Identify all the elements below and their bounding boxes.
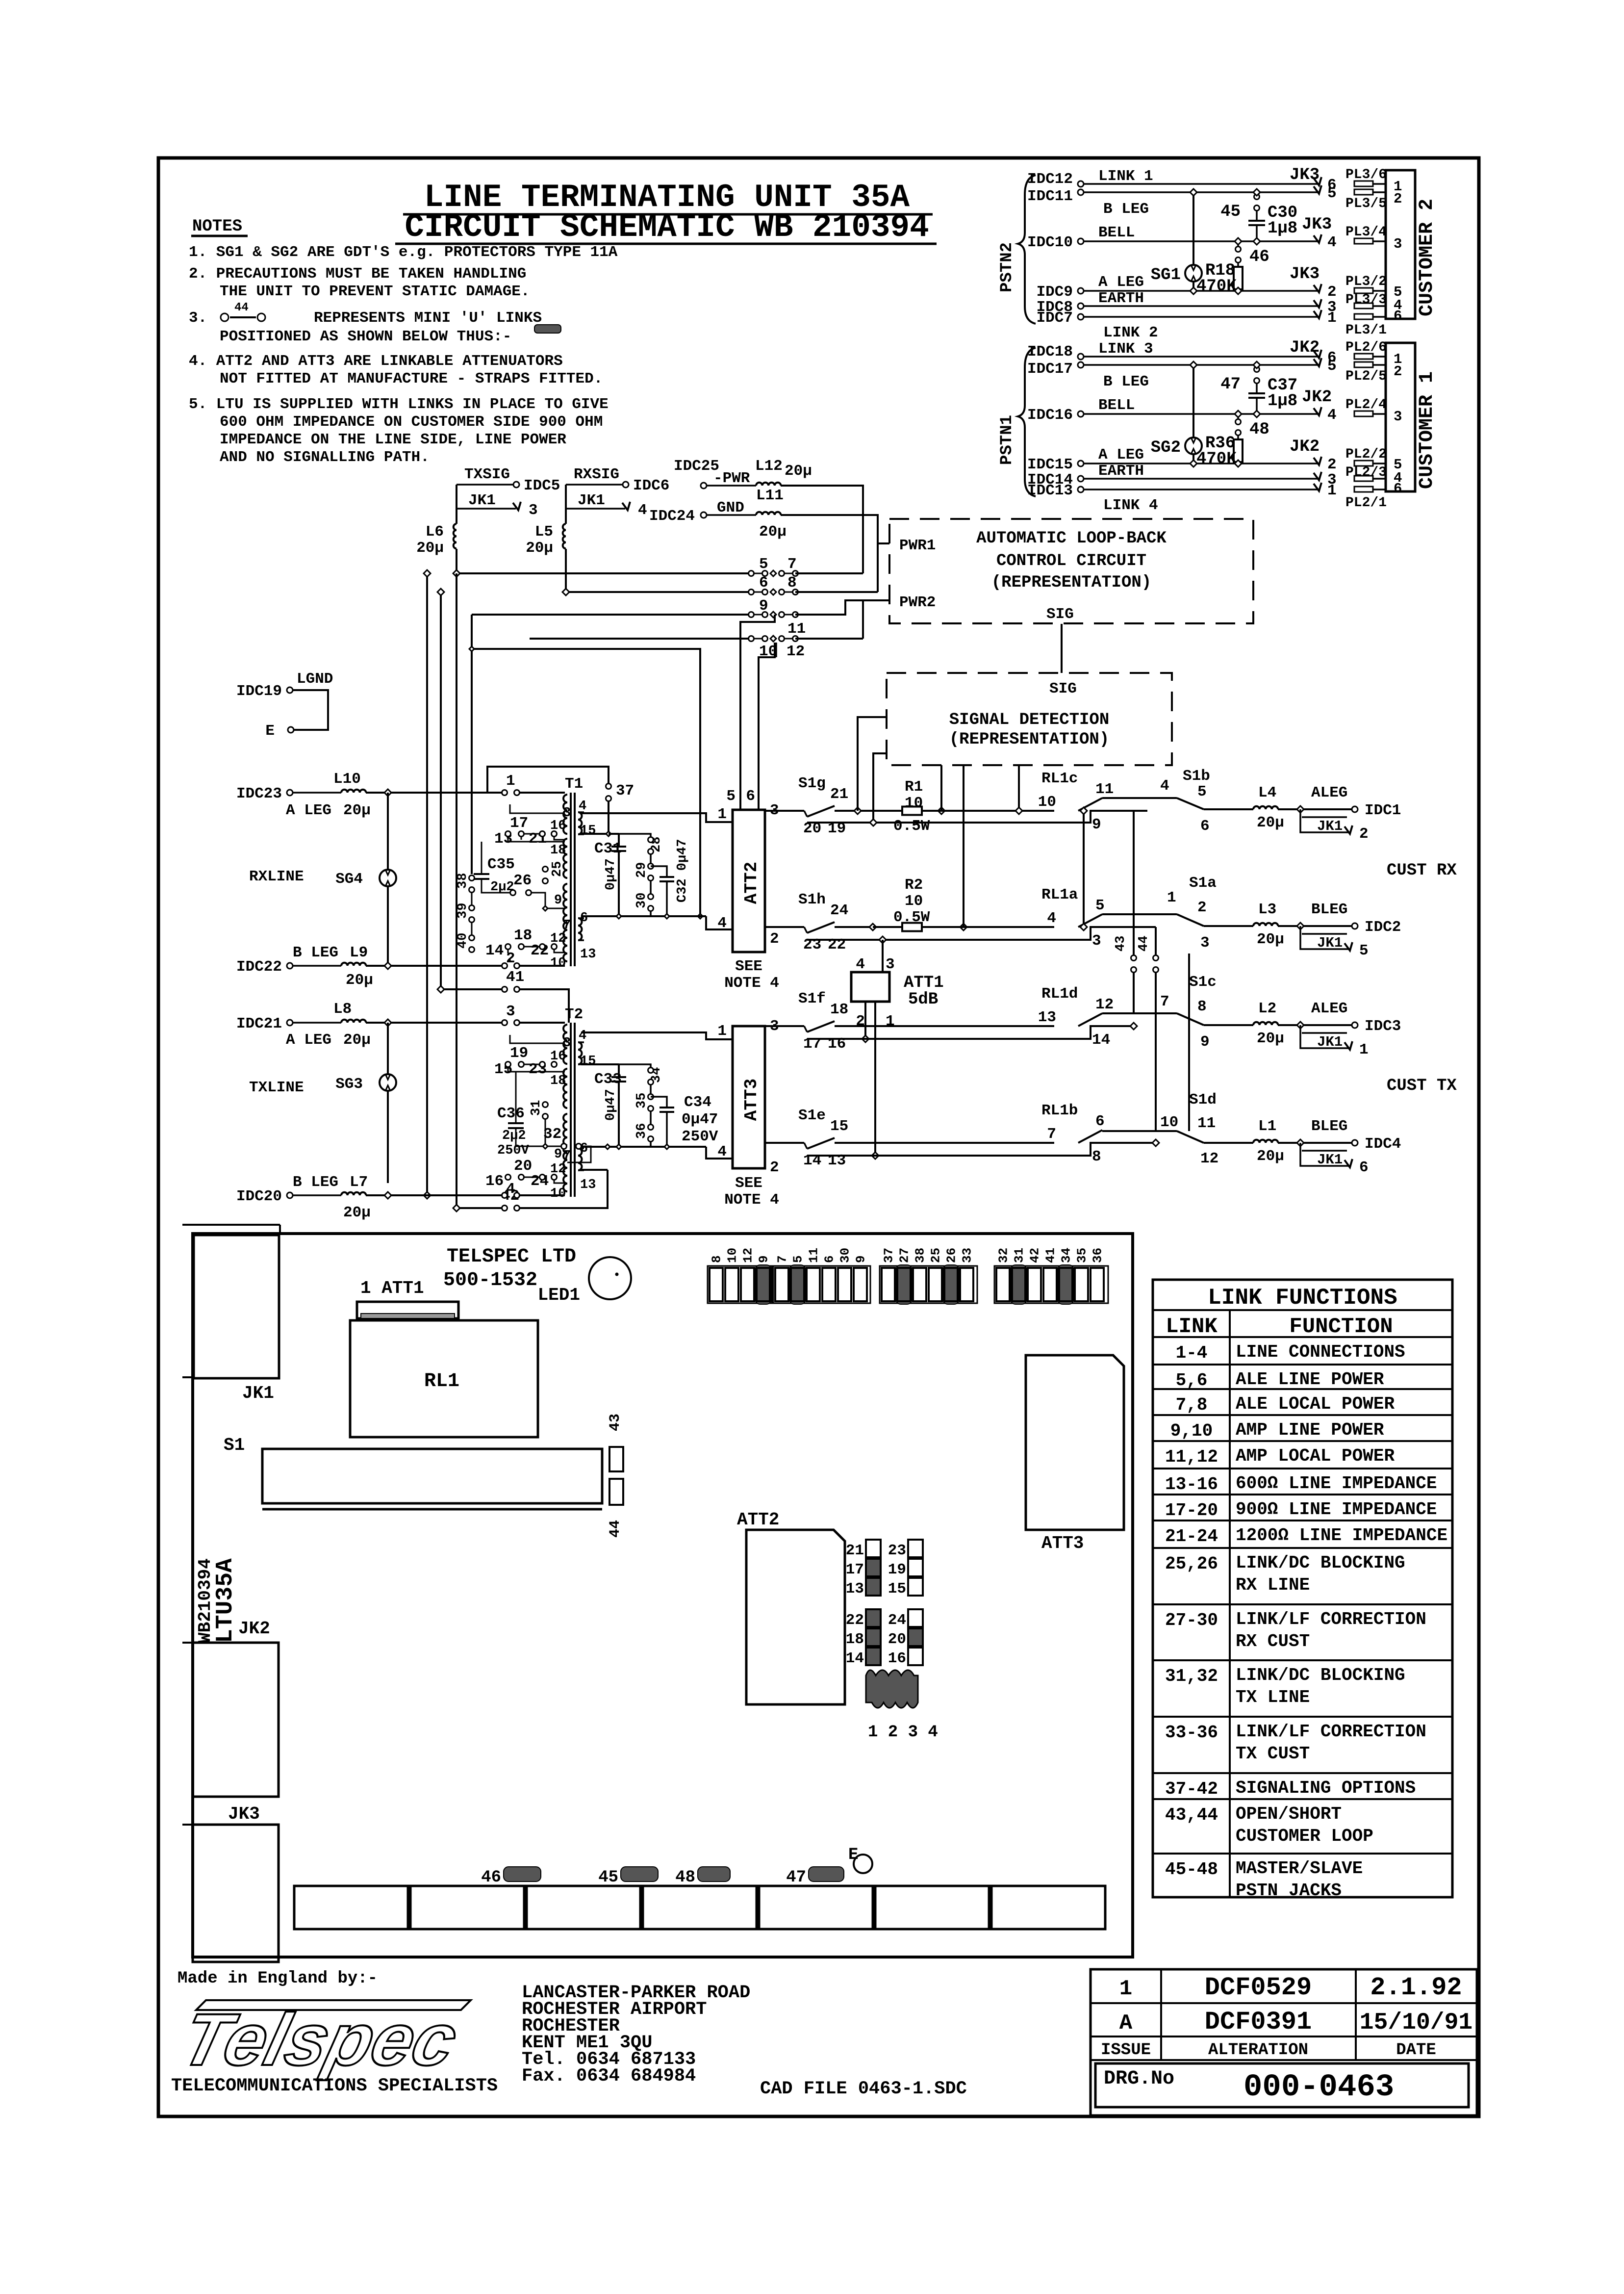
svg-text:2: 2 bbox=[1394, 363, 1402, 380]
svg-text:11,12: 11,12 bbox=[1165, 1447, 1218, 1467]
svg-text:20μ: 20μ bbox=[1257, 931, 1284, 948]
svg-text:PL3/6: PL3/6 bbox=[1345, 167, 1387, 182]
svg-text:10: 10 bbox=[1038, 794, 1056, 811]
connector box CUSTOMER 1 bbox=[1386, 343, 1415, 491]
svg-text:L9: L9 bbox=[350, 944, 368, 961]
svg-text:SG3: SG3 bbox=[335, 1076, 363, 1093]
svg-text:2μ2: 2μ2 bbox=[502, 1129, 526, 1143]
pad bbox=[1354, 288, 1373, 293]
svg-text:PWR1: PWR1 bbox=[899, 537, 936, 554]
svg-text:S1g: S1g bbox=[798, 775, 826, 792]
wire B LEG to A LEG bbox=[1193, 192, 1194, 291]
svg-text:4: 4 bbox=[1160, 777, 1169, 795]
svg-text:21-24: 21-24 bbox=[1165, 1526, 1218, 1547]
svg-text:10: 10 bbox=[905, 893, 923, 910]
svg-text:43: 43 bbox=[1114, 936, 1128, 952]
svg-text:REPRESENTS MINI 'U' LINKS: REPRESENTS MINI 'U' LINKS bbox=[314, 309, 542, 327]
link 48 bbox=[1237, 414, 1239, 419]
svg-text:1: 1 bbox=[717, 1023, 727, 1040]
svg-text:S1c: S1c bbox=[1189, 974, 1217, 991]
svg-text:2: 2 bbox=[1359, 825, 1369, 843]
svg-text:L3: L3 bbox=[1258, 901, 1276, 918]
svg-text:15: 15 bbox=[580, 1054, 596, 1069]
svg-text:CONTROL CIRCUIT: CONTROL CIRCUIT bbox=[996, 552, 1146, 570]
svg-text:18: 18 bbox=[846, 1631, 864, 1648]
svg-text:7,8: 7,8 bbox=[1176, 1395, 1208, 1415]
svg-text:5,6: 5,6 bbox=[1176, 1370, 1208, 1391]
svg-text:PL2/6: PL2/6 bbox=[1345, 340, 1387, 355]
svg-text:IDC16: IDC16 bbox=[1027, 407, 1073, 424]
svg-text:2: 2 bbox=[1327, 284, 1337, 301]
svg-text:C33: C33 bbox=[594, 1071, 622, 1088]
svg-text:30: 30 bbox=[838, 1248, 853, 1263]
inductor L2 20u bbox=[1253, 1022, 1278, 1025]
svg-text:2: 2 bbox=[770, 930, 779, 948]
svg-text:000-0463: 000-0463 bbox=[1243, 2070, 1394, 2105]
svg-text:3: 3 bbox=[1092, 932, 1101, 950]
svg-text:17-20: 17-20 bbox=[1165, 1500, 1218, 1521]
wire bbox=[1084, 240, 1319, 242]
svg-text:CUSTOMER 1: CUSTOMER 1 bbox=[1416, 371, 1438, 489]
svg-text:AUTOMATIC LOOP-BACK: AUTOMATIC LOOP-BACK bbox=[976, 529, 1167, 548]
svg-text:RX CUST: RX CUST bbox=[1236, 1631, 1310, 1651]
svg-text:38: 38 bbox=[456, 873, 470, 889]
svg-text:33-36: 33-36 bbox=[1165, 1723, 1218, 1743]
svg-text:3: 3 bbox=[529, 502, 538, 519]
svg-text:CAD FILE 0463-1.SDC: CAD FILE 0463-1.SDC bbox=[760, 2079, 967, 2099]
wire bbox=[1084, 183, 1319, 185]
svg-text:1: 1 bbox=[886, 1013, 895, 1030]
svg-text:16: 16 bbox=[550, 819, 566, 833]
svg-text:B LEG: B LEG bbox=[293, 944, 338, 961]
svg-text:46: 46 bbox=[481, 1868, 501, 1887]
svg-text:45: 45 bbox=[1220, 203, 1241, 221]
svg-text:16: 16 bbox=[485, 1173, 504, 1190]
svg-text:RL1d: RL1d bbox=[1041, 985, 1078, 1003]
svg-text:SG1: SG1 bbox=[1151, 266, 1181, 284]
svg-text:43,44: 43,44 bbox=[1165, 1805, 1218, 1825]
pad bbox=[1354, 354, 1373, 359]
svg-text:A LEG: A LEG bbox=[286, 802, 331, 819]
GDT SG3 bbox=[387, 1023, 389, 1074]
wire bbox=[1084, 305, 1319, 307]
svg-text:C36: C36 bbox=[497, 1105, 525, 1122]
svg-text:T1: T1 bbox=[565, 775, 583, 793]
svg-text:CUSTOMER LOOP: CUSTOMER LOOP bbox=[1236, 1826, 1373, 1846]
JK1 pin stub bbox=[1300, 1143, 1348, 1166]
svg-text:L1: L1 bbox=[1258, 1118, 1276, 1135]
svg-text:JK3: JK3 bbox=[228, 1804, 260, 1824]
svg-text:IDC21: IDC21 bbox=[236, 1015, 282, 1032]
wire bbox=[1084, 489, 1319, 490]
inductor L8 20u bbox=[341, 1020, 366, 1023]
svg-text:BELL: BELL bbox=[1098, 397, 1135, 414]
svg-text:27-30: 27-30 bbox=[1165, 1610, 1218, 1630]
inductor L5 20u bbox=[563, 524, 566, 548]
svg-text:POSITIONED AS SHOWN BELOW THUS: POSITIONED AS SHOWN BELOW THUS:- bbox=[220, 328, 511, 345]
svg-text:11: 11 bbox=[787, 620, 806, 638]
svg-text:SIG: SIG bbox=[1049, 680, 1077, 697]
GDT SG1 bbox=[1185, 265, 1202, 282]
svg-text:7: 7 bbox=[775, 1255, 790, 1263]
svg-text:CIRCUIT SCHEMATIC WB 210394: CIRCUIT SCHEMATIC WB 210394 bbox=[405, 209, 929, 246]
svg-text:3.: 3. bbox=[189, 309, 207, 327]
GDT SG2 bbox=[1185, 438, 1202, 454]
T2 pin6 rail to ATT3 pin4 bbox=[581, 1146, 706, 1148]
svg-text:32: 32 bbox=[996, 1248, 1011, 1263]
svg-text:7: 7 bbox=[563, 918, 571, 933]
svg-text:470K: 470K bbox=[1196, 450, 1237, 468]
svg-text:11: 11 bbox=[1095, 781, 1114, 798]
pad bbox=[1354, 314, 1373, 319]
svg-text:9: 9 bbox=[1092, 816, 1101, 833]
T2 right winding upper bbox=[578, 1042, 582, 1064]
svg-text:S1: S1 bbox=[224, 1435, 245, 1455]
svg-text:37-42: 37-42 bbox=[1165, 1779, 1218, 1799]
IDC terminal IDC1 bbox=[1352, 806, 1358, 812]
wire loop above T1 bbox=[487, 767, 609, 793]
svg-text:48: 48 bbox=[1249, 420, 1269, 439]
svg-text:8: 8 bbox=[710, 1255, 724, 1263]
svg-text:PL3/1: PL3/1 bbox=[1345, 323, 1387, 338]
svg-text:AMP LINE POWER: AMP LINE POWER bbox=[1236, 1420, 1384, 1440]
svg-text:9,10: 9,10 bbox=[1170, 1421, 1213, 1441]
T1 pin6 rail to ATT2 pin4 bbox=[581, 915, 706, 917]
svg-text:BLEG: BLEG bbox=[1311, 901, 1347, 918]
svg-text:S1d: S1d bbox=[1189, 1091, 1217, 1108]
svg-text:4: 4 bbox=[717, 1143, 727, 1160]
svg-text:5: 5 bbox=[1327, 358, 1337, 375]
svg-text:1. SG1 & SG2 ARE GDT'S e.g. P: 1. SG1 & SG2 ARE GDT'S e.g. PROTECTORS T… bbox=[189, 244, 618, 261]
svg-text:NOTE 4: NOTE 4 bbox=[724, 1191, 779, 1209]
svg-text:1: 1 bbox=[1327, 482, 1337, 499]
wire left rail A bbox=[426, 573, 428, 1195]
svg-text:5: 5 bbox=[1197, 783, 1207, 800]
svg-text:Fax. 0634 684984: Fax. 0634 684984 bbox=[522, 2066, 696, 2087]
T2 right winding lower bbox=[578, 1148, 582, 1170]
svg-text:LTU35A: LTU35A bbox=[212, 1558, 239, 1643]
link 45 bbox=[1254, 194, 1260, 200]
svg-text:46: 46 bbox=[1249, 248, 1269, 266]
wire bbox=[1084, 290, 1319, 292]
svg-text:PWR2: PWR2 bbox=[899, 594, 936, 611]
svg-text:37: 37 bbox=[882, 1248, 896, 1263]
svg-text:5: 5 bbox=[791, 1255, 806, 1263]
svg-text:500-1532: 500-1532 bbox=[443, 1269, 537, 1291]
svg-text:RL1c: RL1c bbox=[1041, 770, 1078, 787]
svg-text:600Ω LINE IMPEDANCE: 600Ω LINE IMPEDANCE bbox=[1236, 1473, 1437, 1494]
wire ATT3 pin3 to S1f bbox=[765, 1025, 804, 1027]
svg-text:48: 48 bbox=[675, 1868, 695, 1887]
svg-text:IDC10: IDC10 bbox=[1027, 234, 1073, 251]
svg-text:IDC12: IDC12 bbox=[1027, 171, 1073, 188]
svg-text:L7: L7 bbox=[350, 1174, 368, 1191]
link pins 10-12 row bbox=[530, 638, 750, 640]
wire T2 pin4 to ATT3 pin1 bbox=[581, 1032, 733, 1039]
wire to IDC bbox=[1278, 925, 1351, 927]
svg-text:3: 3 bbox=[1200, 934, 1210, 952]
svg-text:IDC9: IDC9 bbox=[1037, 284, 1073, 301]
pad bbox=[1354, 362, 1373, 367]
T1 left winding bbox=[563, 795, 567, 834]
svg-text:1: 1 bbox=[1359, 1041, 1369, 1058]
svg-text:18: 18 bbox=[550, 1074, 566, 1088]
svg-text:15: 15 bbox=[888, 1580, 906, 1598]
svg-text:5: 5 bbox=[1327, 185, 1337, 202]
T1 pin15 rail bbox=[581, 833, 609, 835]
strap symbol bbox=[534, 325, 561, 333]
svg-text:4: 4 bbox=[1327, 234, 1337, 251]
svg-text:RXSIG: RXSIG bbox=[574, 466, 619, 483]
pad bbox=[1354, 189, 1373, 195]
svg-text:IDC13: IDC13 bbox=[1027, 482, 1073, 499]
wire L11 to links bbox=[781, 515, 878, 592]
svg-text:2: 2 bbox=[1197, 899, 1207, 916]
svg-text:L6: L6 bbox=[426, 523, 444, 541]
svg-text:20μ: 20μ bbox=[416, 540, 444, 557]
svg-text:16: 16 bbox=[888, 1650, 906, 1667]
svg-text:IDC4: IDC4 bbox=[1365, 1135, 1401, 1153]
svg-text:IDC17: IDC17 bbox=[1027, 361, 1073, 378]
svg-text:L10: L10 bbox=[333, 771, 361, 788]
svg-text:JK1: JK1 bbox=[578, 492, 605, 509]
GDT SG4 bbox=[387, 793, 389, 870]
svg-text:14: 14 bbox=[846, 1650, 864, 1667]
svg-text:6: 6 bbox=[1394, 308, 1402, 324]
svg-text:13: 13 bbox=[580, 1178, 596, 1192]
svg-text:PL2/4: PL2/4 bbox=[1345, 397, 1387, 412]
svg-text:JK3: JK3 bbox=[1290, 166, 1319, 184]
svg-text:LINK 2: LINK 2 bbox=[1103, 324, 1158, 341]
svg-text:6: 6 bbox=[1359, 1159, 1369, 1176]
svg-text:21: 21 bbox=[846, 1542, 864, 1559]
svg-text:2.1.92: 2.1.92 bbox=[1370, 1973, 1462, 2002]
svg-text:ATT3: ATT3 bbox=[741, 1079, 761, 1121]
C35 wires bbox=[481, 842, 482, 873]
svg-text:JK1: JK1 bbox=[1317, 1034, 1343, 1050]
svg-text:TELSPEC LTD: TELSPEC LTD bbox=[447, 1246, 576, 1268]
svg-text:JK3: JK3 bbox=[1290, 265, 1319, 284]
svg-text:9: 9 bbox=[554, 1147, 562, 1162]
svg-text:44: 44 bbox=[234, 301, 249, 314]
svg-text:15: 15 bbox=[830, 1118, 848, 1135]
svg-text:C32 0μ47: C32 0μ47 bbox=[675, 839, 690, 902]
pad bbox=[1354, 476, 1373, 481]
svg-text:AMP LOCAL POWER: AMP LOCAL POWER bbox=[1236, 1446, 1395, 1466]
svg-text:12: 12 bbox=[550, 931, 566, 946]
svg-text:41: 41 bbox=[1043, 1248, 1058, 1263]
svg-text:LED1: LED1 bbox=[538, 1285, 580, 1305]
connector box CUSTOMER 2 bbox=[1386, 170, 1415, 319]
svg-text:L4: L4 bbox=[1258, 784, 1276, 801]
svg-text:0μ47: 0μ47 bbox=[682, 1111, 718, 1128]
svg-text:SG2: SG2 bbox=[1151, 438, 1181, 457]
wire ATT3 pin2 to S1e bbox=[765, 1142, 804, 1144]
capacitor C30 bbox=[1248, 220, 1265, 222]
inductor L3 20u bbox=[1253, 923, 1278, 926]
svg-text:36: 36 bbox=[634, 1123, 649, 1139]
svg-text:A: A bbox=[1119, 2011, 1133, 2036]
svg-text:LINK 4: LINK 4 bbox=[1103, 497, 1158, 514]
svg-text:2: 2 bbox=[1394, 191, 1402, 207]
attenuator ATT3 box bbox=[733, 1026, 765, 1168]
wire bbox=[1084, 478, 1319, 480]
svg-text:13: 13 bbox=[1038, 1009, 1056, 1026]
svg-text:PL2/5: PL2/5 bbox=[1345, 369, 1387, 384]
wire IDC22 to T1 bbox=[366, 965, 502, 967]
svg-text:5. LTU IS SUPPLIED WITH LINKS: 5. LTU IS SUPPLIED WITH LINKS IN PLACE T… bbox=[189, 396, 609, 413]
svg-text:4: 4 bbox=[579, 1029, 586, 1043]
svg-text:20: 20 bbox=[888, 1631, 906, 1648]
wire B LEG to A LEG bbox=[1193, 365, 1194, 464]
link 47 bbox=[1254, 367, 1260, 372]
svg-text:20μ: 20μ bbox=[1257, 1030, 1284, 1047]
svg-text:B LEG: B LEG bbox=[1103, 373, 1149, 390]
svg-text:ALE LOCAL POWER: ALE LOCAL POWER bbox=[1236, 1394, 1395, 1414]
svg-text:6: 6 bbox=[822, 1255, 837, 1263]
svg-text:13: 13 bbox=[846, 1580, 864, 1598]
svg-text:ATT3: ATT3 bbox=[1041, 1533, 1084, 1553]
svg-text:IDC23: IDC23 bbox=[236, 785, 282, 802]
wire bbox=[1084, 364, 1319, 366]
svg-text:A LEG: A LEG bbox=[286, 1031, 331, 1049]
LINK FUNCTIONS table bbox=[1153, 1280, 1452, 1897]
attenuator ATT2 box bbox=[733, 810, 765, 952]
JK1 pin stub bbox=[1300, 1025, 1348, 1048]
inductor L1 20u bbox=[1253, 1140, 1278, 1143]
svg-text:WB210394: WB210394 bbox=[195, 1558, 215, 1643]
svg-text:27: 27 bbox=[897, 1248, 912, 1263]
svg-text:20: 20 bbox=[514, 1158, 532, 1175]
wire to PWR1 bbox=[878, 542, 889, 544]
IDC terminal IDC2 bbox=[1352, 923, 1358, 929]
wire left rail B bbox=[440, 592, 442, 989]
svg-text:EARTH: EARTH bbox=[1098, 463, 1144, 480]
svg-text:Telspec: Telspec bbox=[174, 1999, 465, 2081]
svg-text:31,32: 31,32 bbox=[1165, 1666, 1218, 1686]
resistor R18 470K bbox=[1237, 263, 1239, 267]
svg-text:JK2: JK2 bbox=[1290, 438, 1319, 456]
svg-text:9: 9 bbox=[1200, 1033, 1210, 1051]
row2 top rail bbox=[1102, 913, 1177, 915]
inductor L7 20u bbox=[341, 1192, 366, 1195]
svg-text:10: 10 bbox=[550, 1186, 566, 1201]
svg-text:47: 47 bbox=[786, 1868, 806, 1887]
ATT1 4-pin connector (PCB) bbox=[866, 1670, 918, 1708]
svg-text:20μ: 20μ bbox=[785, 463, 812, 480]
svg-text:12: 12 bbox=[787, 643, 805, 660]
svg-text:11: 11 bbox=[807, 1248, 821, 1263]
wire rail down from row 9 to ATT2 pin 5 bbox=[740, 615, 775, 810]
svg-text:RL1a: RL1a bbox=[1041, 886, 1078, 903]
svg-text:IDC6: IDC6 bbox=[633, 477, 669, 494]
svg-text:IDC1: IDC1 bbox=[1365, 802, 1401, 819]
svg-text:1 ATT1: 1 ATT1 bbox=[360, 1278, 424, 1298]
svg-text:IDC3: IDC3 bbox=[1365, 1018, 1401, 1035]
svg-text:1 2 3 4: 1 2 3 4 bbox=[868, 1723, 938, 1742]
wire to IDC bbox=[1278, 1142, 1351, 1144]
svg-text:3: 3 bbox=[1394, 236, 1402, 252]
svg-text:S1a: S1a bbox=[1189, 875, 1217, 892]
svg-text:S1f: S1f bbox=[798, 990, 826, 1007]
svg-text:EARTH: EARTH bbox=[1098, 290, 1144, 307]
row4 main wire bbox=[836, 1142, 1054, 1144]
svg-text:T2: T2 bbox=[565, 1006, 583, 1023]
svg-text:SEE: SEE bbox=[735, 958, 762, 975]
svg-text:12: 12 bbox=[550, 1162, 566, 1177]
row1 top rail bbox=[1102, 797, 1177, 799]
svg-text:JK1: JK1 bbox=[242, 1383, 274, 1403]
svg-text:15: 15 bbox=[580, 824, 596, 838]
svg-text:1: 1 bbox=[506, 773, 515, 790]
svg-text:RX LINE: RX LINE bbox=[1236, 1575, 1310, 1595]
svg-text:4: 4 bbox=[717, 915, 727, 932]
svg-text:2: 2 bbox=[1327, 456, 1337, 473]
svg-text:4: 4 bbox=[1327, 407, 1337, 424]
svg-text:13-16: 13-16 bbox=[1165, 1474, 1218, 1495]
svg-text:25: 25 bbox=[929, 1248, 943, 1263]
wire L12 to links bbox=[781, 486, 863, 573]
svg-text:20μ: 20μ bbox=[343, 1031, 371, 1049]
svg-text:4: 4 bbox=[638, 502, 647, 519]
row1 main wire bbox=[836, 810, 878, 812]
svg-text:PSTN JACKS: PSTN JACKS bbox=[1236, 1881, 1342, 1901]
svg-text:20μ: 20μ bbox=[526, 540, 553, 557]
row2 main wire bbox=[836, 926, 873, 928]
svg-text:14: 14 bbox=[1092, 1031, 1110, 1049]
svg-text:1200Ω LINE IMPEDANCE: 1200Ω LINE IMPEDANCE bbox=[1236, 1525, 1447, 1546]
svg-text:10: 10 bbox=[725, 1248, 740, 1263]
svg-text:E: E bbox=[265, 722, 275, 740]
T2 pin13 rail bbox=[581, 1169, 608, 1171]
svg-text:LINK/DC BLOCKING: LINK/DC BLOCKING bbox=[1236, 1553, 1405, 1573]
svg-text:37: 37 bbox=[616, 782, 634, 799]
svg-text:IDC18: IDC18 bbox=[1027, 343, 1073, 361]
bottom connector row bbox=[294, 1886, 408, 1929]
svg-text:470K: 470K bbox=[1196, 277, 1237, 296]
svg-text:3: 3 bbox=[506, 1003, 515, 1020]
svg-text:L5: L5 bbox=[535, 523, 553, 541]
svg-text:LINK 3: LINK 3 bbox=[1098, 340, 1153, 358]
LED1 (PCB) bbox=[589, 1257, 631, 1299]
svg-text:4: 4 bbox=[579, 799, 586, 814]
svg-text:5dB: 5dB bbox=[908, 990, 938, 1009]
terminal E bbox=[288, 727, 294, 733]
wire to IDC bbox=[1278, 1024, 1351, 1026]
svg-text:18: 18 bbox=[830, 1001, 848, 1018]
svg-text:18: 18 bbox=[550, 843, 566, 858]
pad bbox=[1354, 487, 1373, 492]
svg-text:20μ: 20μ bbox=[1257, 814, 1284, 831]
svg-text:31: 31 bbox=[529, 1100, 544, 1116]
svg-text:RL1: RL1 bbox=[424, 1370, 459, 1392]
pad bbox=[1354, 181, 1373, 186]
svg-text:6: 6 bbox=[580, 911, 588, 926]
svg-text:JK2: JK2 bbox=[1290, 338, 1319, 357]
svg-text:30: 30 bbox=[634, 893, 649, 908]
row4 top rail bbox=[1102, 1130, 1177, 1132]
svg-text:JK3: JK3 bbox=[1302, 215, 1332, 234]
svg-text:RXLINE: RXLINE bbox=[249, 868, 304, 885]
svg-text:PL3/2: PL3/2 bbox=[1345, 274, 1387, 289]
T2 pin15 rail bbox=[581, 1063, 619, 1065]
svg-text:OPEN/SHORT: OPEN/SHORT bbox=[1236, 1804, 1342, 1824]
svg-text:47: 47 bbox=[1220, 375, 1241, 394]
svg-text:10: 10 bbox=[905, 795, 923, 812]
wire left rail C bbox=[471, 615, 473, 874]
svg-text:0μ47: 0μ47 bbox=[604, 858, 618, 890]
svg-text:LINK/DC BLOCKING: LINK/DC BLOCKING bbox=[1236, 1665, 1405, 1685]
